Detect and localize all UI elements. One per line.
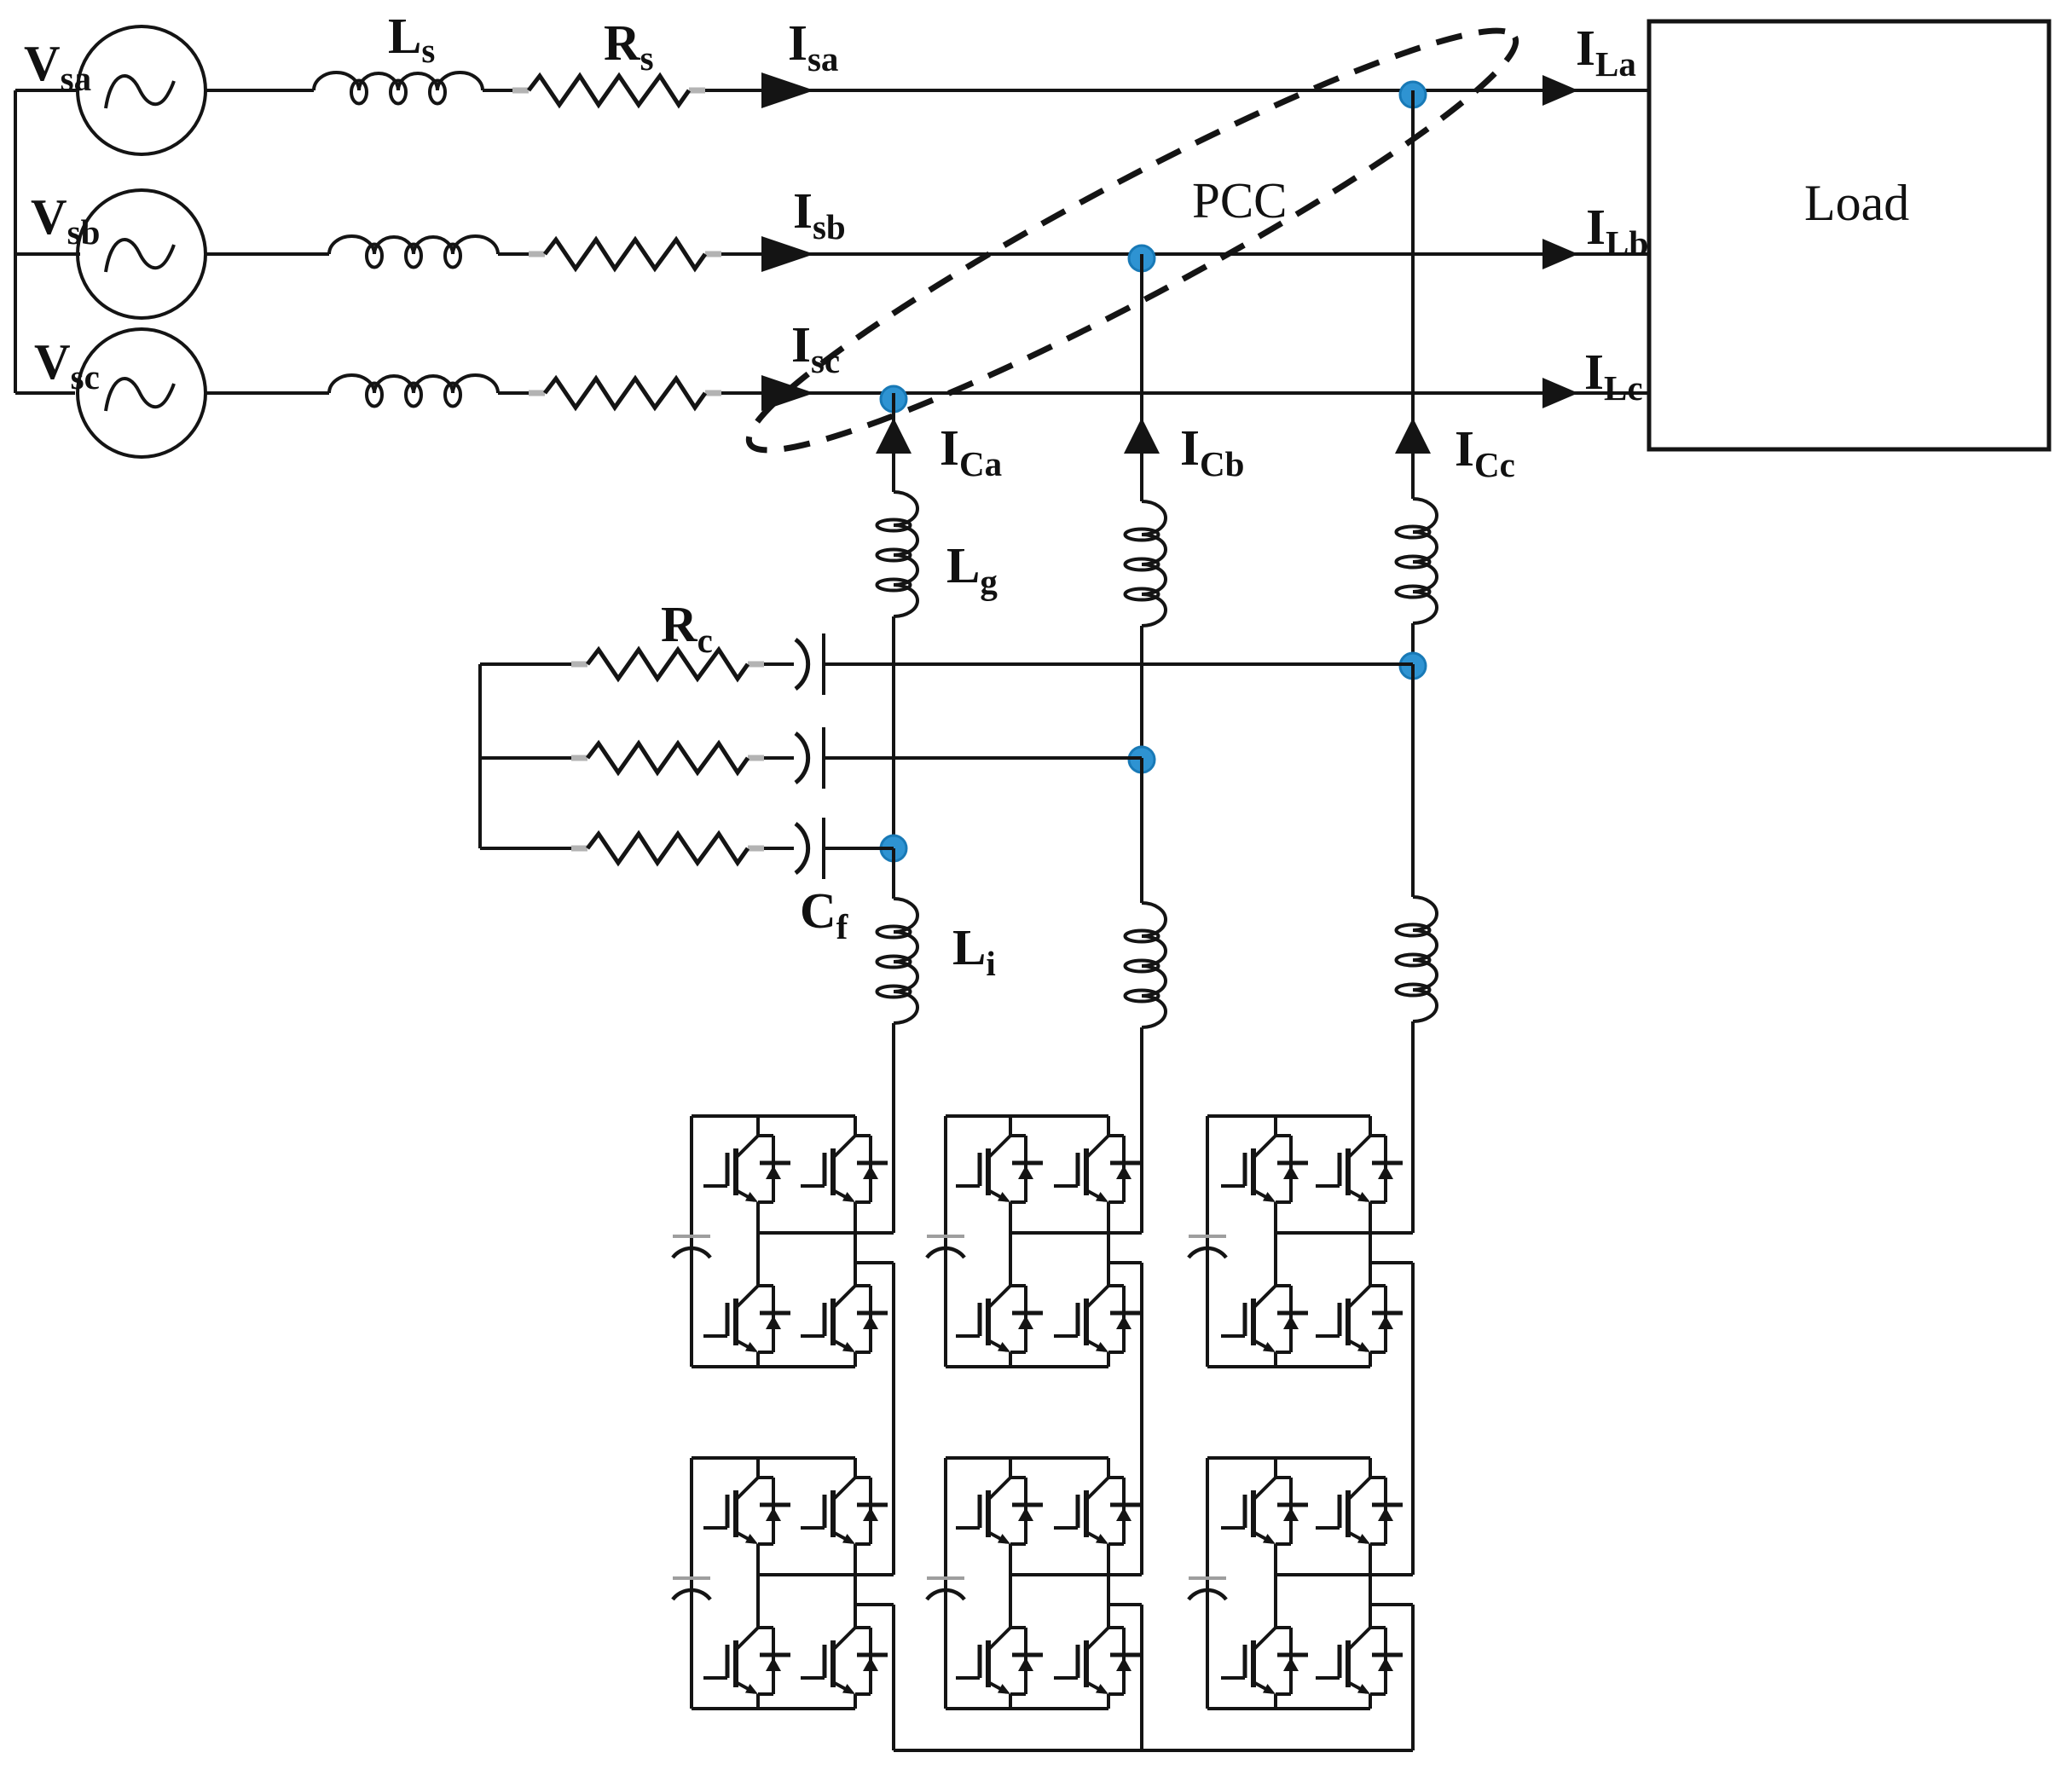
IGBT cell A2 top-left (703, 1478, 790, 1544)
wire cell B1 to cell B2 (1140, 1263, 1143, 1575)
inductor Ls phase c (329, 375, 498, 407)
wire node to Li phase a (892, 848, 895, 899)
node PCC phase b (1129, 246, 1155, 271)
DC-side bus wire (894, 1749, 1413, 1752)
DC capacitor cell C2 (1189, 1578, 1226, 1599)
arrow ILb (1542, 239, 1578, 269)
IGBT cell C2 top-left (1221, 1478, 1308, 1544)
capacitor Cf branch 1 (796, 633, 824, 695)
wire cell B1 output jog (1108, 1261, 1142, 1264)
wire Lg to node phase c (1411, 623, 1415, 664)
wire Ls to Rs phase a (483, 89, 512, 92)
H-bridge cell C2 frame (1207, 1458, 1370, 1709)
IGBT cell A1 top-right (801, 1136, 888, 1202)
IGBT cell A2 bottom-right (801, 1628, 888, 1694)
wire cell B2 midline (1010, 1573, 1142, 1576)
H-bridge cell A2 frame (692, 1458, 855, 1709)
arrow Isc (761, 375, 814, 411)
DC capacitor cell A1 (673, 1236, 710, 1258)
IGBT cell B1 bottom-left (956, 1286, 1043, 1352)
wire Rc3 to Cf3 (764, 847, 794, 850)
wire cell A2 to DC bus (892, 1605, 895, 1750)
wire Rc2 to Cf2 (764, 756, 794, 760)
wire Vsb to Ls (205, 252, 329, 256)
wire Lg to node phase b (1140, 626, 1143, 758)
wire Isa line (705, 89, 1649, 92)
IGBT cell C2 top-right (1316, 1478, 1403, 1544)
wire Ls to Rs phase c (498, 391, 529, 395)
inductor Li phase c (1397, 897, 1438, 1021)
PCC dashed ellipse (723, 0, 1542, 495)
node PCC phase a (1400, 82, 1426, 107)
resistor Rc branch 3 (571, 834, 764, 863)
wire ICb branch to Lg (1140, 254, 1143, 501)
resistor Rs phase c (529, 379, 721, 408)
wire Li to cell A1 (892, 1023, 895, 1233)
wire cell B1 midline (1010, 1231, 1142, 1235)
wire Vsa to Ls (205, 89, 314, 92)
wire cell C1 midline (1276, 1231, 1413, 1235)
wire cell C1 to cell C2 (1411, 1263, 1415, 1575)
wire bus to Vsb (15, 252, 80, 256)
wire Cf3 to phase a (824, 847, 894, 850)
node Cf phase a (881, 836, 906, 861)
resistor Rc branch 1 (571, 650, 764, 679)
inductor Lg phase c (1397, 499, 1438, 623)
IGBT cell B1 top-right (1054, 1136, 1141, 1202)
wire ICc branch to Lg (1411, 90, 1415, 499)
IGBT cell A1 bottom-left (703, 1286, 790, 1352)
wire Isc line (721, 391, 1649, 395)
wire Cf2 to phase b (824, 756, 1142, 760)
wire Rc1 to Cf1 (764, 662, 794, 666)
node PCC phase c (881, 386, 906, 412)
DC capacitor cell B2 (927, 1578, 964, 1599)
wire bus to Vsa (15, 89, 78, 92)
wire Cf1 to phase c (824, 662, 1413, 666)
wire cell C2 midline (1276, 1573, 1413, 1576)
IGBT cell A2 top-right (801, 1478, 888, 1544)
arrow ILc (1542, 378, 1578, 408)
inductor Li phase a (877, 899, 918, 1023)
arrow ICb (1124, 418, 1160, 454)
AC source Vsb (78, 190, 205, 318)
IGBT cell A2 bottom-left (703, 1628, 790, 1694)
svg-text:Load: Load (1804, 175, 1909, 231)
resistor Rs phase b (529, 240, 721, 269)
arrow ILa (1542, 75, 1578, 106)
IGBT cell B2 bottom-right (1054, 1628, 1141, 1694)
node Rc phase b (1129, 747, 1155, 772)
resistor Rs phase a (512, 76, 705, 105)
wire Ls to Rs phase b (498, 252, 529, 256)
H-bridge cell B2 frame (946, 1458, 1108, 1709)
IGBT cell B1 bottom-right (1054, 1286, 1141, 1352)
DC capacitor cell B1 (927, 1236, 964, 1258)
wire cell C2 to DC bus (1411, 1605, 1415, 1750)
IGBT cell B2 top-left (956, 1478, 1043, 1544)
capacitor Cf branch 2 (796, 727, 824, 789)
IGBT cell A1 top-left (703, 1136, 790, 1202)
wire cell A1 to cell A2 (892, 1263, 895, 1575)
wire Rc bus (478, 664, 482, 848)
IGBT cell C2 bottom-left (1221, 1628, 1308, 1694)
H-bridge cell B1 frame (946, 1116, 1108, 1367)
wire cell A2 midline (758, 1573, 894, 1576)
inductor Li phase b (1126, 903, 1166, 1027)
wire Li to cell C1 (1411, 1021, 1415, 1233)
wire node to Li phase b (1140, 758, 1143, 903)
wire cell A1 output jog (855, 1261, 894, 1264)
arrow ICa (876, 418, 912, 454)
AC source Vsa (78, 26, 205, 154)
wire cell B2 to DC bus (1140, 1605, 1143, 1750)
IGBT cell B2 bottom-left (956, 1628, 1043, 1694)
wire cell A1 midline (758, 1231, 894, 1235)
load box (1649, 21, 2049, 449)
IGBT cell A1 bottom-right (801, 1286, 888, 1352)
arrow Isb (761, 236, 814, 272)
inductor Lg phase a (877, 492, 918, 616)
resistor Rc branch 2 (571, 743, 764, 772)
wire bus to Rc1 (480, 662, 571, 666)
wire left source bus (14, 90, 17, 393)
wire node to Li phase c (1411, 664, 1415, 897)
wire Vsc to Ls (205, 391, 329, 395)
wire cell A2 output jog (855, 1603, 894, 1606)
wire bus to Vsc (15, 391, 75, 395)
AC source Vsc (78, 329, 205, 457)
wire cell B2 output jog (1108, 1603, 1142, 1606)
IGBT cell C1 bottom-left (1221, 1286, 1308, 1352)
arrow Isa (761, 72, 814, 108)
DC capacitor cell A2 (673, 1578, 710, 1599)
IGBT cell C2 bottom-right (1316, 1628, 1403, 1694)
H-bridge cell C1 frame (1207, 1116, 1370, 1367)
wire cell C2 output jog (1370, 1603, 1413, 1606)
wire Li to cell B1 (1140, 1027, 1143, 1233)
DC capacitor cell C1 (1189, 1236, 1226, 1258)
IGBT cell C1 bottom-right (1316, 1286, 1403, 1352)
capacitor Cf branch 3 (796, 818, 824, 879)
wire Isb line (721, 252, 1649, 256)
wire ICa branch to Lg (892, 393, 895, 492)
inductor Lg phase b (1126, 501, 1166, 626)
IGBT cell C1 top-left (1221, 1136, 1308, 1202)
svg-text:PCC: PCC (1192, 172, 1288, 228)
IGBT cell B2 top-right (1054, 1478, 1141, 1544)
IGBT cell C1 top-right (1316, 1136, 1403, 1202)
H-bridge cell A1 frame (692, 1116, 855, 1367)
inductor Ls phase b (329, 236, 498, 268)
inductor Ls phase a (314, 72, 483, 104)
wire bus to Rc3 (480, 847, 571, 850)
node Rc phase c (1400, 653, 1426, 679)
arrow ICc (1395, 418, 1431, 454)
wire cell C1 output jog (1370, 1261, 1413, 1264)
wire Lg to Cf node phase a (892, 616, 895, 848)
wire bus to Rc2 (480, 756, 571, 760)
IGBT cell B1 top-left (956, 1136, 1043, 1202)
